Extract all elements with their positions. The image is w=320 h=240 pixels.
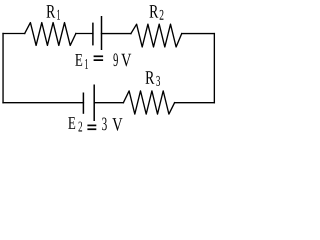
label E2 subscript 2	[78, 122, 82, 132]
wire: right side vertical	[213, 34, 215, 103]
battery E1 short plate	[92, 23, 94, 46]
label R3 subscript 3	[156, 76, 160, 86]
wire: top-left horizontal to R1	[3, 33, 25, 35]
wire: R3 to bottom-right corner	[175, 102, 215, 104]
unit V of E1	[121, 54, 131, 67]
label R1 letter R	[46, 5, 55, 17]
wire: bottom-left horizontal to E2	[3, 102, 83, 104]
resistor R3	[123, 91, 174, 114]
unit V of E2	[112, 118, 122, 131]
battery E2 long plate	[93, 85, 95, 122]
label R2 letter R	[149, 5, 158, 17]
label E2 letter E	[68, 117, 75, 129]
wire: R2 to top-right corner	[182, 33, 215, 35]
equals sign of E2	[87, 125, 96, 129]
label R2 subscript 2	[160, 10, 164, 20]
label R3 letter R	[145, 71, 154, 83]
label E1 letter E	[75, 54, 82, 66]
label E1 subscript 1	[85, 59, 88, 69]
value 3 of E2	[102, 118, 107, 131]
resistor R2	[131, 24, 182, 47]
wire: R1 to E1	[76, 33, 93, 35]
label R1 subscript 1	[57, 10, 60, 20]
value 9 of E1	[113, 53, 117, 66]
resistor R1	[25, 23, 76, 46]
wire: left side vertical	[2, 34, 4, 103]
battery E2 short plate	[82, 93, 84, 114]
equals sign of E1	[94, 56, 104, 60]
wire: E1 to R2	[102, 33, 131, 35]
battery E1 long plate	[101, 16, 103, 50]
wire: E2 to R3	[94, 102, 123, 104]
